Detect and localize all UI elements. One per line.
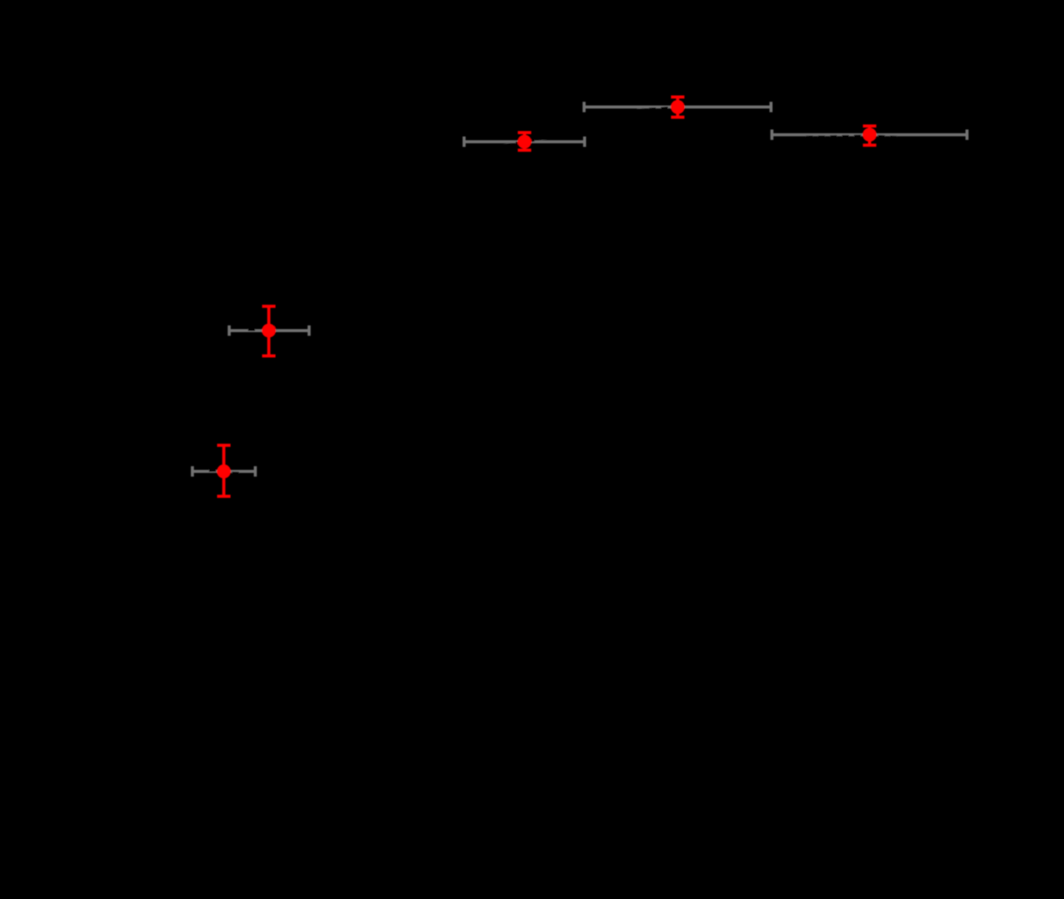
x error bar E (gray, with caps) <box>192 466 255 476</box>
data point A marker (red circle) <box>518 135 532 149</box>
data point C marker (red circle) <box>863 128 877 142</box>
y error bar A (red, with caps) <box>518 133 531 151</box>
data point D marker (red circle) <box>262 324 276 338</box>
x error bar C (gray, with caps) <box>772 130 967 140</box>
y error bar E (red, with caps) <box>217 445 230 496</box>
data point E marker (red circle) <box>217 464 231 478</box>
y error bar C (red, with caps) <box>863 126 876 145</box>
data point B marker (red circle) <box>671 100 685 114</box>
x error bar A (gray, with caps) <box>464 137 584 147</box>
x error bar B (gray, with caps) <box>584 102 771 112</box>
x error bar D (gray, with caps) <box>229 325 309 335</box>
black dashed fit curve through the data points (visible only where it crosses gray bars) <box>209 108 899 474</box>
y error bar B (red, with caps) <box>671 97 684 117</box>
y error bar D (red, with caps) <box>262 306 275 356</box>
